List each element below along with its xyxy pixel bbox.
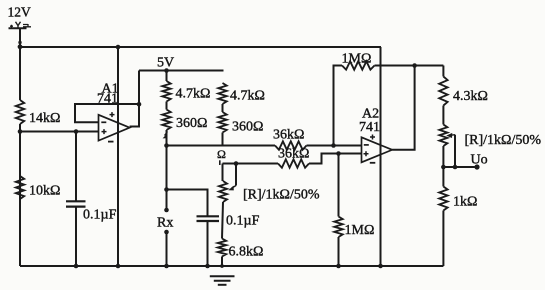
node left rail mid junction [18, 129, 23, 134]
node 6.8k bottom junction [220, 264, 224, 268]
wire 5V rail [139, 70, 224, 72]
capacitor C1 0.1uF plates [66, 201, 86, 206]
node Rx lower terminal [164, 230, 169, 235]
A1 V- supply minus mark [108, 141, 114, 143]
svg-text:1MΩ: 1MΩ [345, 223, 375, 238]
A2 noninverting input plus mark [364, 151, 369, 156]
node cap C1 bottom rail junction [74, 264, 79, 269]
svg-text:0.1µF: 0.1µF [83, 208, 117, 223]
node A2 output top junction [412, 63, 417, 68]
wire top rail [20, 46, 381, 48]
wire bottom rail [20, 265, 443, 267]
potentiometer [R] 1k right [439, 125, 447, 147]
node cap C1 tap [74, 129, 79, 134]
wire pot bottom to 6.8k [222, 202, 223, 239]
resistor 10k [16, 176, 24, 199]
wire to A1 noninverting input [20, 131, 99, 133]
node A1 supply bottom junction [116, 264, 121, 269]
wire Rx column lower [166, 232, 168, 266]
svg-text:4.3kΩ: 4.3kΩ [453, 89, 488, 104]
op-amp A2 triangle [362, 137, 393, 162]
node 1M lower rail junction [336, 264, 341, 269]
svg-text:6.8kΩ: 6.8kΩ [229, 245, 264, 260]
wire pot R1 top lead [222, 164, 224, 182]
pot left end tick mark [219, 160, 221, 165]
svg-text:0.1µF: 0.1µF [226, 214, 260, 229]
branch1 tap arrow mark [165, 132, 168, 136]
node Rx bottom rail junction [164, 264, 169, 269]
wire pot to 1k [442, 146, 444, 187]
node A2 supply bottom junction [378, 264, 383, 269]
svg-text:10kΩ: 10kΩ [29, 184, 60, 199]
wire A2 output [392, 66, 414, 150]
wire A1 supply column [117, 47, 119, 266]
wire A1 output [130, 71, 139, 127]
svg-text:741: 741 [359, 120, 380, 135]
svg-text:360Ω: 360Ω [176, 116, 207, 131]
node branch1 bottom junction [164, 143, 169, 148]
terminal Uo [474, 164, 479, 169]
svg-text:[R]/1kΩ/50%: [R]/1kΩ/50% [243, 188, 320, 203]
resistor 36k upper [275, 141, 307, 149]
node Rx upper terminal [164, 208, 169, 213]
wire left rail [19, 28, 21, 100]
node A1 supply top junction [116, 45, 121, 50]
svg-text:12V: 12V [8, 5, 32, 20]
svg-text:36kΩ: 36kΩ [273, 128, 304, 143]
wire right column top corner [442, 66, 444, 77]
wire lower 36k left segment [223, 163, 279, 165]
wire 1M lower column top [338, 154, 340, 217]
node wiper Uo junction [453, 165, 458, 170]
wire branch2 bottom lead [222, 133, 224, 146]
potentiometer [R] 1k left [219, 181, 227, 202]
resistor 4.7k branch2 [218, 83, 226, 104]
wire cap C2 bottom lead [207, 221, 209, 266]
A1 inverting input minus mark [101, 121, 106, 123]
wire 1k bottom lead [442, 211, 444, 267]
resistor 360 branch1 [162, 110, 170, 131]
svg-text:4.7kΩ: 4.7kΩ [230, 89, 265, 104]
resistor 14k [16, 100, 24, 124]
resistor 1M lower [334, 217, 342, 238]
wire branch2 mid lead [222, 104, 224, 112]
resistor R 4.7k branch1 [162, 81, 170, 102]
node Rx cap tap junction [164, 187, 169, 192]
wire lower 36k to A2 noninverting [309, 154, 362, 164]
resistor 36k lower [278, 159, 309, 167]
A2 inverting input minus mark [364, 144, 369, 146]
wire right pot wiper [454, 135, 456, 167]
wire cap C1 top lead [75, 132, 77, 202]
svg-text:5V: 5V [157, 56, 174, 71]
pot wiper arrowhead [232, 186, 237, 189]
power symbol +V= (12V supply terminal) [9, 22, 32, 28]
A1 noninverting input plus mark [102, 129, 107, 134]
node A2 noninverting 1M tap [336, 151, 341, 156]
wire pot wiper [235, 164, 237, 186]
wire 4.3k to pot [442, 106, 444, 125]
wire Rx column upper [166, 146, 168, 211]
op-amp A1 triangle [99, 115, 130, 141]
svg-text:14kΩ: 14kΩ [29, 111, 60, 126]
svg-text:Ω: Ω [217, 147, 226, 161]
wire A1 feedback loop [75, 104, 139, 122]
node 5V branch1 junction [164, 68, 169, 73]
wire 1M right segment [375, 65, 444, 67]
wire 1M lower bottom lead [338, 237, 340, 266]
svg-text:Uo: Uo [471, 153, 488, 168]
wire upper 36k to A2 inverting [307, 145, 362, 147]
wire left rail lower [19, 124, 21, 266]
wire Rx to cap C2 [167, 190, 208, 217]
resistor 4.3k [439, 77, 447, 106]
node A1 feedback-output junction [137, 102, 142, 107]
node 1M to inverting junction [331, 143, 336, 148]
node right column Uo junction [441, 165, 446, 170]
resistor 360 branch2 [218, 112, 226, 133]
ground symbol [210, 276, 235, 285]
node smear above junction [18, 41, 21, 44]
A2 V+ supply plus mark [370, 135, 375, 140]
node 12V top-left junction [18, 44, 23, 49]
A2 V- supply minus mark [370, 162, 376, 164]
svg-text:1kΩ: 1kΩ [453, 195, 477, 210]
node cap C2 bottom rail junction [205, 264, 210, 269]
wire 1M left column [334, 66, 343, 146]
wire A2 supply column [380, 47, 382, 266]
svg-text:Rx: Rx [157, 216, 173, 231]
svg-text:360Ω: 360Ω [232, 120, 263, 135]
A1 V+ supply plus mark [110, 112, 115, 117]
wire 6.8k bottom lead [221, 257, 223, 267]
resistor 6.8k [218, 239, 226, 257]
wire branch1 bottom lead [166, 130, 168, 146]
right pot wiper arrowhead [451, 134, 455, 137]
resistor 1M top [342, 61, 375, 69]
resistor 1k [439, 187, 447, 211]
node pot wiper tap junction [234, 161, 239, 166]
svg-text:[R]/1kΩ/50%: [R]/1kΩ/50% [465, 133, 542, 148]
wire Uo line [443, 166, 474, 168]
wire upper 36k left segment [167, 145, 276, 147]
wire cap C1 bottom lead [75, 207, 77, 266]
wire branch1 top lead [166, 71, 168, 82]
svg-text:4.7kΩ: 4.7kΩ [176, 87, 211, 102]
wire branch1 mid lead [166, 102, 168, 110]
capacitor C2 0.1uF plates [197, 216, 220, 221]
